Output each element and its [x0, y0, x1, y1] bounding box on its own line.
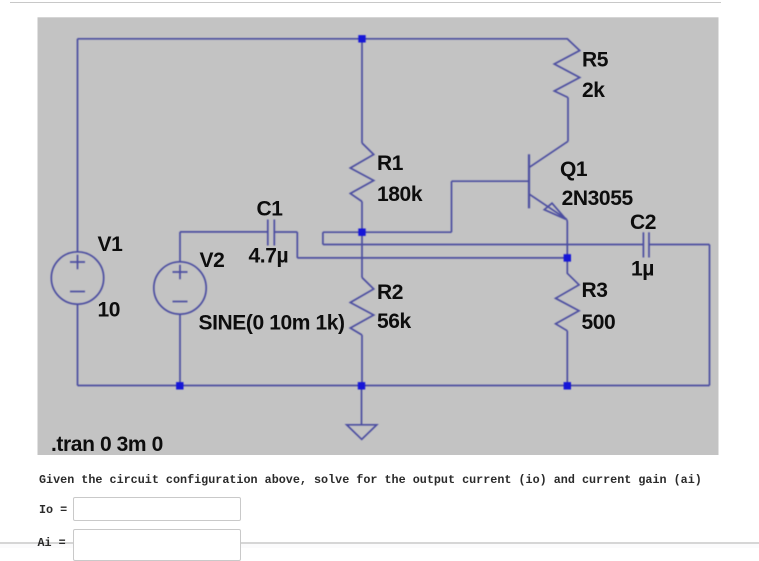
voltage source V2: [154, 262, 206, 314]
wire node to R2: [361, 232, 363, 277]
svg-text:500: 500: [582, 311, 616, 334]
bottom separator: [0, 542, 759, 544]
question text: [39, 473, 702, 487]
voltage source V1: [51, 252, 103, 304]
wire V2 top lead: [179, 232, 181, 262]
wire top rail: [78, 38, 569, 40]
svg-text:R1: R1: [377, 152, 404, 175]
wire C1 right lead: [274, 231, 297, 233]
node rail/R1 junction: [358, 35, 365, 42]
svg-text:R5: R5: [582, 49, 609, 72]
svg-text:SINE(0 10m 1k): SINE(0 10m 1k): [199, 312, 345, 335]
wire bottom rail: [78, 385, 710, 387]
wire emitter riser: [566, 220, 568, 258]
node R2/ground junction: [358, 382, 365, 389]
svg-text:Q1: Q1: [560, 158, 588, 181]
wire V2 to C1: [180, 231, 268, 233]
svg-text:4.7µ: 4.7µ: [249, 245, 289, 268]
svg-text:10: 10: [98, 299, 121, 322]
wire C2 left lead: [323, 244, 644, 246]
wire right edge riser: [709, 245, 711, 386]
wire base riser: [451, 181, 453, 232]
wire C1 output drop: [296, 232, 298, 258]
wire base lead: [452, 180, 529, 182]
svg-text:C1: C1: [257, 198, 284, 221]
Io label: [39, 503, 67, 517]
ground: [347, 425, 377, 440]
wire V1 top lead: [77, 39, 79, 252]
wire divider node line: [323, 231, 452, 233]
svg-text:R2: R2: [377, 281, 403, 304]
capacitor C2: [643, 232, 649, 257]
svg-text:56k: 56k: [377, 310, 412, 333]
svg-text:.tran 0 3m 0: .tran 0 3m 0: [51, 433, 163, 456]
capacitor C1: [268, 220, 275, 246]
node R3 ground junction: [564, 382, 571, 389]
svg-text:2k: 2k: [582, 79, 605, 102]
wire V2 bottom lead: [179, 314, 181, 385]
node R1/R2 divider junction: [358, 229, 365, 236]
Ai label: [38, 536, 66, 550]
svg-text:C2: C2: [630, 211, 656, 234]
wire signal line C1 to emitter node: [297, 257, 567, 259]
wire drop at divider tap: [322, 232, 324, 244]
svg-text:1µ: 1µ: [631, 258, 654, 281]
resistor R5: [554, 39, 579, 98]
wire R2 bottom lead: [361, 335, 363, 386]
Ai input box: [73, 529, 241, 561]
Io input box: [73, 497, 241, 521]
node emitter/R3 junction: [564, 254, 571, 261]
wire R1 top lead: [361, 39, 363, 143]
svg-text:2N3055: 2N3055: [562, 187, 634, 210]
wire R1 to node: [361, 202, 363, 233]
svg-text:V1: V1: [98, 233, 124, 256]
wire collector riser: [567, 98, 569, 142]
wire V1 bottom lead: [77, 304, 79, 385]
wire C2 right lead: [649, 244, 710, 246]
resistor R1: [350, 143, 373, 202]
node V2 ground junction: [176, 382, 183, 389]
svg-text:V2: V2: [200, 249, 225, 272]
resistor R2: [350, 278, 373, 336]
top separator line: [10, 2, 721, 4]
svg-text:180k: 180k: [377, 183, 423, 206]
wire ground stem: [361, 386, 363, 425]
svg-text:R3: R3: [582, 279, 608, 302]
resistor R3: [556, 258, 579, 331]
transistor Q1: [529, 141, 568, 219]
wire R3 bottom lead: [566, 331, 568, 386]
